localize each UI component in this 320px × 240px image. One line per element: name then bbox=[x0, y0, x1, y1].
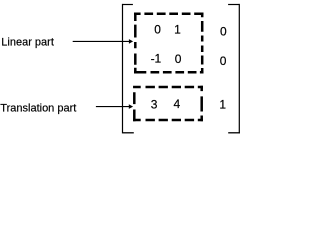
top edge bbox=[134, 13, 203, 16]
svg-text:0: 0 bbox=[220, 24, 227, 38]
svg-text:0: 0 bbox=[220, 54, 227, 68]
svg-text:0: 0 bbox=[175, 52, 182, 66]
svg-text:1: 1 bbox=[219, 97, 226, 111]
right edge bbox=[201, 13, 204, 74]
left edge bbox=[133, 92, 136, 121]
svg-text:0: 0 bbox=[154, 23, 161, 37]
right edge bbox=[200, 86, 203, 122]
svg-text:-1: -1 bbox=[151, 52, 162, 66]
dashed box: translation part bbox=[133, 86, 203, 122]
svg-text:4: 4 bbox=[173, 97, 180, 111]
matrix right bracket bbox=[228, 4, 240, 134]
svg-text:1: 1 bbox=[174, 23, 181, 37]
svg-text:Translation part: Translation part bbox=[0, 102, 76, 114]
dashed box: linear part (2x2 submatrix) bbox=[134, 13, 203, 74]
svg-text:3: 3 bbox=[151, 97, 158, 111]
svg-text:Linear part: Linear part bbox=[1, 37, 54, 49]
matrix left bracket bbox=[123, 4, 134, 134]
arrow from Translation part label to translation-part dashed box bbox=[96, 104, 133, 109]
arrow from Linear part label to linear-part dashed box bbox=[73, 39, 133, 44]
bottom edge bbox=[134, 71, 203, 74]
top edge bbox=[133, 86, 203, 89]
left edge bbox=[134, 13, 137, 74]
bottom edge bbox=[133, 119, 203, 122]
